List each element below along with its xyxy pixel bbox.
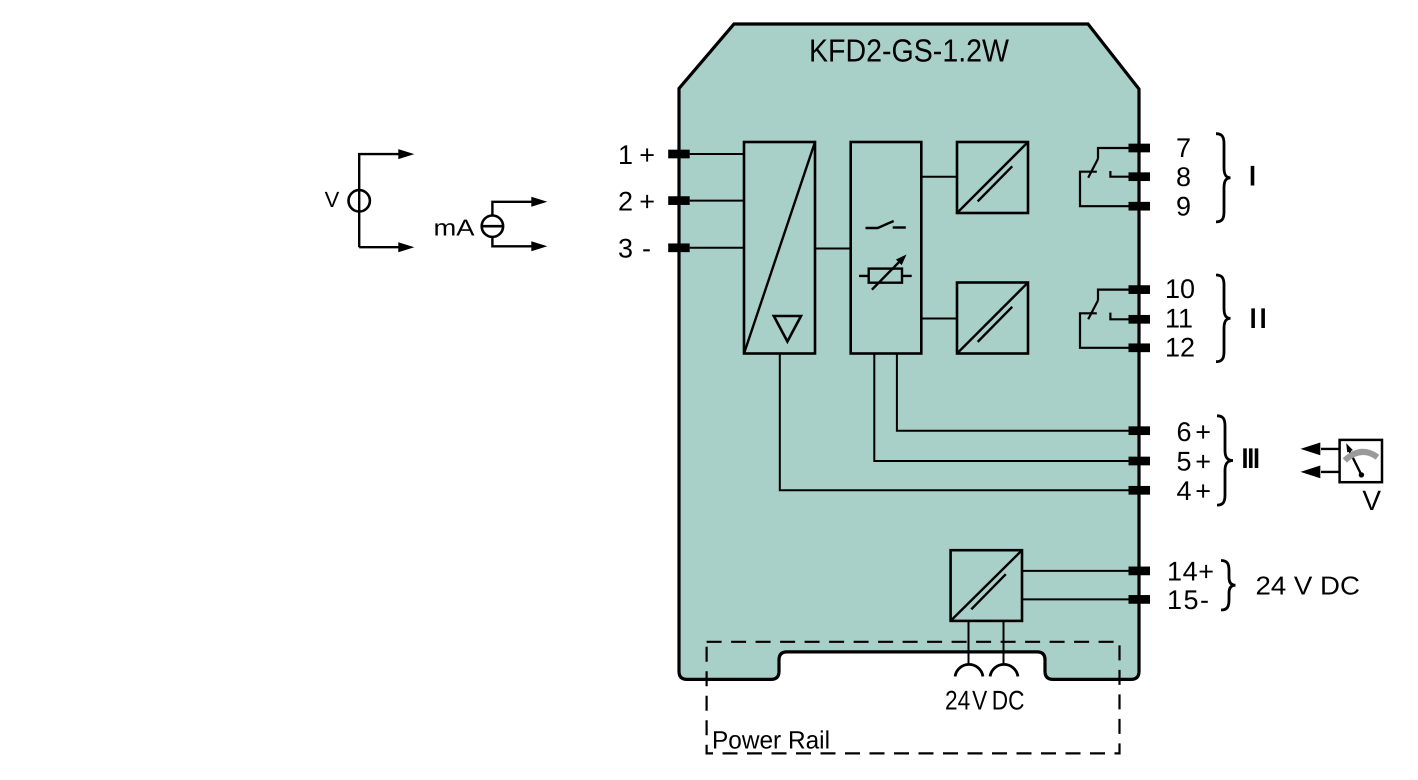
terminal 6+ <box>1129 426 1151 435</box>
relay contact I <box>1080 148 1129 206</box>
terminal 5+ <box>1129 457 1151 466</box>
terminal 7 <box>1129 144 1151 153</box>
wire to terminal 15- <box>1022 598 1129 600</box>
isolation amplifier block U1 <box>744 142 815 354</box>
svg-text:15-: 15- <box>1167 585 1209 615</box>
wire terminal 3- to amplifier <box>690 247 744 249</box>
wire to terminal 14+ <box>1022 570 1129 572</box>
device body KFD2-GS-1.2W <box>679 24 1139 679</box>
svg-text:2+: 2+ <box>618 187 655 217</box>
svg-text:24 V DC: 24 V DC <box>945 686 1025 716</box>
wire to terminal 5+ <box>874 354 1128 462</box>
wire amplifier to control block <box>815 248 851 250</box>
terminal 10 <box>1129 285 1151 294</box>
brace group III <box>1217 416 1233 505</box>
terminal 14+ <box>1129 567 1151 576</box>
svg-text:1+: 1+ <box>618 140 655 170</box>
svg-text:mA: mA <box>434 215 476 241</box>
wire terminal 2+ to amplifier <box>690 200 744 202</box>
arrow to voltmeter upper <box>1301 443 1340 456</box>
svg-text:9: 9 <box>1176 192 1191 222</box>
brace group II <box>1216 275 1231 362</box>
svg-text:11: 11 <box>1165 304 1193 334</box>
svg-text:24 V DC: 24 V DC <box>1256 571 1361 601</box>
output isolator square lower <box>957 283 1028 354</box>
terminal 9 <box>1129 202 1151 211</box>
control block U2 with switch and trimmer <box>851 142 922 354</box>
voltage source V1 <box>349 149 415 252</box>
current source mA <box>482 197 548 252</box>
terminal 2+ <box>668 196 690 205</box>
svg-text:7: 7 <box>1176 133 1191 163</box>
wire to terminal 6+ <box>897 354 1129 431</box>
svg-text:3-: 3- <box>618 234 651 264</box>
svg-text:V: V <box>325 187 340 212</box>
terminal 4+ <box>1129 486 1151 495</box>
svg-text:4+: 4+ <box>1177 476 1212 506</box>
terminal 12 <box>1129 343 1151 352</box>
wire control block to output opto upper <box>921 176 957 178</box>
svg-text:KFD2-GS-1.2W: KFD2-GS-1.2W <box>809 33 1010 69</box>
wire power supply to rail plug left <box>968 621 970 665</box>
svg-text:III: III <box>1241 444 1260 474</box>
svg-text:V: V <box>1362 485 1381 516</box>
svg-text:II: II <box>1249 304 1267 334</box>
wire to terminal 4+ <box>780 354 1129 491</box>
wire power supply to rail plug right <box>1003 621 1005 665</box>
terminal 1+ <box>668 150 690 159</box>
terminal 15- <box>1129 595 1151 604</box>
svg-text:10: 10 <box>1165 274 1195 304</box>
voltmeter M1 <box>1340 440 1382 482</box>
brace group I <box>1216 134 1231 222</box>
terminal 8 <box>1129 172 1151 181</box>
brace 24 V DC group <box>1221 561 1236 611</box>
terminal 3- <box>668 243 690 252</box>
svg-text:14+: 14+ <box>1167 557 1214 587</box>
svg-text:I: I <box>1249 161 1257 191</box>
svg-text:6+: 6+ <box>1177 417 1212 447</box>
svg-text:12: 12 <box>1165 333 1195 363</box>
output isolator square upper <box>957 142 1028 213</box>
power supply isolator square <box>951 550 1022 621</box>
power rail plug socket left <box>955 664 983 676</box>
power rail plug socket right <box>990 664 1018 676</box>
arrow to voltmeter lower <box>1301 466 1340 479</box>
svg-text:Power Rail: Power Rail <box>712 727 830 755</box>
svg-text:5+: 5+ <box>1177 447 1212 477</box>
terminal 11 <box>1129 315 1151 324</box>
wire terminal 1+ to amplifier <box>690 153 744 155</box>
wire control block to output opto lower <box>921 318 957 320</box>
svg-text:8: 8 <box>1176 162 1191 192</box>
power rail dashed box <box>707 642 1120 754</box>
relay contact II <box>1080 290 1129 348</box>
